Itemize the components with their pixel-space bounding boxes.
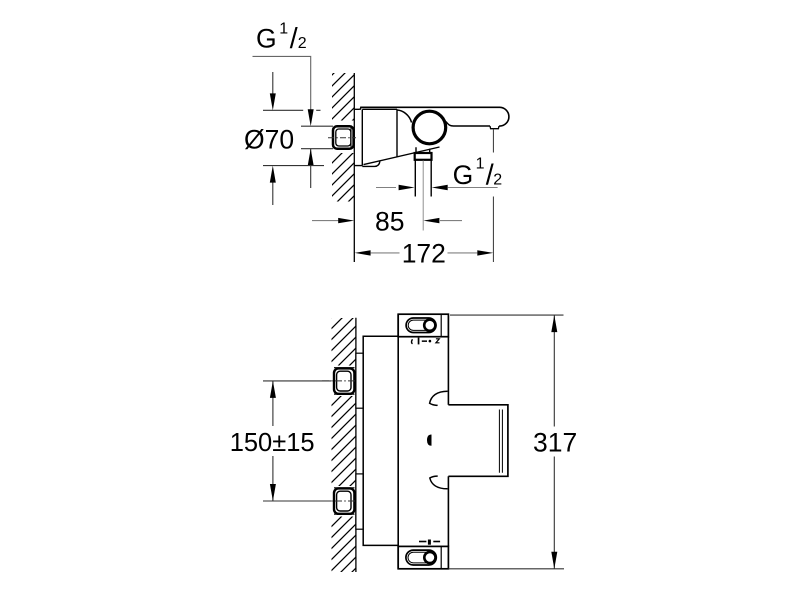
upper union centerline (322, 380, 356, 382)
svg-text:Ø70: Ø70 (244, 124, 294, 154)
dim 150 lower extension line (263, 500, 331, 502)
spout bottom line (454, 125, 491, 127)
dim 150 upper stem (272, 381, 274, 426)
top capsule inner (408, 320, 434, 330)
dim 85 line left (312, 220, 342, 222)
svg-text:317: 317 (533, 428, 577, 458)
dim 150 upper extension line (263, 380, 331, 382)
hatch cutout lower fitting (331, 486, 356, 517)
lower union flanges (334, 488, 355, 514)
upper mounting boss (356, 353, 363, 408)
wedge foot (362, 161, 380, 166)
arrowhead up (150) (270, 381, 276, 398)
backplate outline (363, 336, 398, 545)
top escutcheon (398, 314, 448, 337)
outlet pipe centerline (422, 161, 424, 231)
bottom knob circle (424, 552, 435, 563)
inlet union nut (side view) (333, 126, 354, 148)
arrowhead right at wall (85) (338, 218, 354, 223)
thread top extension line (301, 125, 333, 127)
lower union nut (front) (334, 488, 354, 513)
arrowhead down at inlet thread top (308, 109, 314, 126)
bottom capsule inner (408, 552, 434, 563)
svg-text:85: 85 (375, 206, 404, 236)
svg-text:G: G (453, 160, 474, 190)
outlet neck (416, 147, 430, 153)
spout right cap (499, 107, 509, 126)
aerator leader extension lower (492, 197, 494, 263)
Ø70 top arrow stem (272, 72, 274, 94)
arrowhead up Ø70 bottom (270, 166, 276, 183)
arrowhead right at pipe left (G1/2) (399, 185, 415, 190)
dim Ø70 bottom extension line (263, 165, 324, 167)
body right edge upper (447, 337, 449, 405)
arrowhead left at pipe center (85) (423, 218, 439, 223)
faucet body top outline (360, 107, 500, 109)
spout top curl (430, 391, 448, 405)
spout (front view, T extension) (448, 405, 508, 477)
arrowhead down (150) (270, 484, 276, 501)
wedge fillet to valve circle (397, 110, 412, 123)
dim 172 arrowhead left at wall (355, 250, 371, 255)
svg-text:2: 2 (493, 172, 502, 189)
dim 317 lower stem (553, 457, 555, 569)
arrowhead up (317) (551, 315, 557, 332)
spout bottom fillet (446, 122, 454, 127)
upper union nut inner (337, 371, 351, 391)
dim 172 arrowhead right at spout end (477, 250, 493, 255)
outlet collar (415, 153, 432, 160)
top capsule slot (406, 318, 436, 333)
svg-text:1: 1 (476, 155, 485, 172)
dim 150 lower stem (272, 456, 274, 501)
dim G1/2 pipe line left (376, 187, 396, 189)
arrowhead down Ø70 top (270, 93, 276, 110)
dim 317 bottom extension line (449, 568, 565, 570)
wedge right edge (396, 109, 398, 156)
upper union nut (front) (334, 368, 354, 393)
Ø70 bottom arrow stem (272, 182, 274, 205)
dim G1/2 pipe line right (448, 187, 498, 189)
bottom escutcheon inner edge (440, 546, 442, 568)
arrowhead left at pipe right (G1/2) (432, 185, 448, 190)
body left edge (397, 314, 399, 569)
upper union flanges (334, 368, 355, 395)
wall hatch cutout at inlet fitting (331, 121, 354, 154)
hatch cutout upper fitting (331, 366, 356, 397)
thread bottom arrow stem (310, 149, 312, 188)
union nut inner face (336, 129, 351, 146)
temperature scale icons (upper) (412, 338, 440, 345)
aerator nub (490, 126, 499, 129)
faucet body wedge inner top line (362, 108, 397, 110)
wall face line (side view) (353, 73, 355, 262)
bottom escutcheon (398, 546, 448, 568)
dim Ø70 top extension line (263, 109, 321, 111)
escutcheon wall plate (side) (355, 109, 363, 165)
top knob circle (424, 320, 435, 331)
spout inner edge lines (499, 410, 502, 473)
volume scale icons (lower) (419, 540, 440, 545)
dim 317 top extension line (450, 314, 564, 316)
dim 172 line left (371, 252, 400, 254)
outlet pipe (415, 160, 431, 197)
svg-text:/: / (290, 23, 298, 55)
wall face line (front view) (355, 318, 357, 572)
union centerline (328, 137, 356, 139)
dim 172 line right (448, 252, 478, 254)
dim 85 line right (440, 220, 462, 222)
spout bottom curl (430, 476, 448, 489)
lower union nut inner (337, 491, 351, 511)
outlet opening mark (427, 435, 432, 446)
dim 317 upper stem (553, 315, 555, 426)
thread bottom extension line (301, 148, 333, 150)
svg-text:150±15: 150±15 (230, 429, 315, 457)
wall hatch (side view) (332, 73, 354, 202)
aerator leader extension upper (492, 129, 494, 153)
leader under G1/2 top (253, 56, 311, 110)
valve body circle (413, 111, 446, 144)
wedge bottom diagonal (364, 147, 440, 165)
bottom capsule slot (406, 550, 436, 565)
lower mounting boss (356, 474, 363, 529)
union flange at wall (350, 127, 352, 148)
svg-text:2: 2 (298, 35, 307, 52)
arrowhead down (317) (551, 552, 557, 569)
top escutcheon inner edge (440, 314, 442, 337)
wall hatch (front view) (332, 318, 356, 572)
svg-text:G: G (256, 24, 277, 54)
svg-text:172: 172 (402, 239, 446, 269)
svg-text:1: 1 (279, 21, 288, 38)
lower union centerline (322, 500, 356, 502)
body right edge lower (447, 476, 449, 546)
arrowhead up at inlet thread bottom (308, 149, 314, 166)
